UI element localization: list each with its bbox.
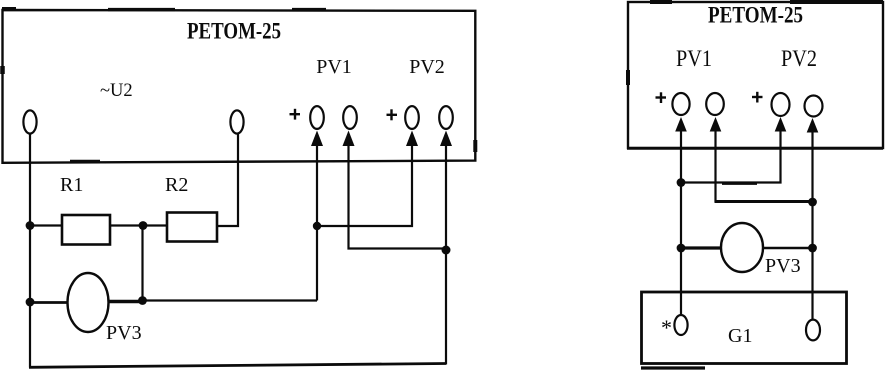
- terminal PV2 minus (right box): [805, 96, 823, 117]
- wire node to PV3 left: [30, 301, 68, 304]
- wire ~U2 left terminal down to bottom rail: [29, 134, 31, 368]
- wire PV3 right to PV2 minus column (right circuit): [763, 247, 813, 250]
- wire PV3 right to PV1 plus column: [109, 300, 146, 303]
- svg-text:PV2: PV2: [409, 56, 445, 78]
- arrow into PV2 minus (right box): [807, 118, 819, 133]
- node junction at R1 left: [26, 221, 35, 230]
- svg-text:PV1: PV1: [676, 46, 712, 71]
- terminal PV1 plus (right box): [672, 93, 689, 115]
- node junction on PV2 minus column: [442, 246, 451, 255]
- wire PV2 plus column over to PV1 plus column: [681, 131, 781, 183]
- terminal PV2 plus (right box): [772, 93, 790, 116]
- device box U1 (left РЕТОМ-25 enclosure): [2, 9, 475, 163]
- node junction at PV3 left: [26, 298, 35, 307]
- terminal PV1 minus (right box): [706, 93, 724, 115]
- scan artifact line below G1: [641, 366, 705, 369]
- terminal ~U2 left: [23, 110, 36, 133]
- svg-text:R1: R1: [60, 174, 83, 196]
- node junction PV1 plus / PV2 plus tie: [313, 222, 321, 230]
- node junction PV2 plus tie on PV1 plus column: [677, 178, 686, 187]
- wire PV1 plus column down to G1 star terminal: [680, 131, 682, 315]
- terminal G1 right: [806, 320, 820, 341]
- svg-text:~U2: ~U2: [100, 81, 133, 101]
- node junction PV3 right (right circuit): [808, 244, 817, 253]
- wire R1 right to junction: [110, 224, 167, 226]
- device box G1 (generator enclosure): [642, 292, 847, 364]
- device box U3 (right РЕТОМ-25 enclosure): [627, 2, 883, 148]
- arrow into PV1 plus (right box): [675, 117, 687, 132]
- terminal PV2 plus (left box): [405, 106, 419, 129]
- node junction R1-R2: [139, 221, 148, 230]
- polarity + PV2 (right box): [752, 92, 763, 103]
- polarity + PV1 (left box): [290, 109, 301, 120]
- svg-text:R2: R2: [165, 174, 188, 196]
- wire R1-R2 junction down to PV3 right junction: [141, 226, 143, 301]
- svg-text:РЕТОМ-25: РЕТОМ-25: [708, 3, 803, 28]
- wire tie PV1 plus to PV2 plus: [317, 146, 412, 226]
- arrow into PV1 minus (right box): [710, 117, 722, 132]
- terminal PV1 plus (left box): [310, 106, 324, 129]
- resistor R2: [167, 213, 217, 242]
- wire bottom rail (left circuit): [29, 364, 446, 368]
- wire PV2 minus column down to G1 right terminal: [811, 132, 813, 320]
- node junction on PV2 minus column: [808, 198, 817, 207]
- node junction PV3 right: [138, 296, 147, 305]
- resistor R1: [62, 215, 110, 245]
- polarity + PV2 (left box): [387, 109, 398, 120]
- voltmeter PV3 (right circuit): [721, 223, 763, 272]
- wire R2 right up to ~U2 right terminal: [217, 134, 238, 227]
- node junction PV3 left (right circuit): [677, 244, 686, 253]
- wire PV1 plus column: [316, 146, 318, 301]
- terminal PV2 minus (left box): [439, 106, 453, 129]
- arrow into PV2 plus (right box): [775, 117, 787, 132]
- svg-text:G1: G1: [728, 325, 752, 347]
- voltmeter PV3 (left circuit): [68, 273, 109, 332]
- arrow into PV2 minus: [440, 131, 452, 147]
- wire PV1 minus column over to PV2 minus column: [714, 131, 716, 202]
- wire node to R1 left: [30, 224, 62, 226]
- polarity + PV1 (right box): [656, 92, 667, 103]
- arrow into PV1 plus: [311, 131, 323, 147]
- svg-text:РЕТОМ-25: РЕТОМ-25: [187, 19, 281, 44]
- wire PV2 minus column down to bottom rail: [445, 146, 447, 365]
- wire PV1 minus over to PV2 minus column: [349, 146, 447, 249]
- svg-text:PV2: PV2: [781, 46, 817, 71]
- terminal PV1 minus (left box): [343, 106, 357, 129]
- terminal ~U2 right: [230, 110, 243, 133]
- svg-text:*: *: [661, 315, 672, 340]
- svg-text:PV3: PV3: [106, 322, 142, 344]
- svg-text:PV3: PV3: [765, 255, 801, 277]
- svg-text:PV1: PV1: [316, 56, 352, 78]
- wire node to PV3 left (right circuit): [681, 246, 721, 249]
- terminal G1 left: [674, 315, 687, 335]
- arrow into PV1 minus: [343, 131, 355, 147]
- arrow into PV2 plus: [406, 131, 418, 147]
